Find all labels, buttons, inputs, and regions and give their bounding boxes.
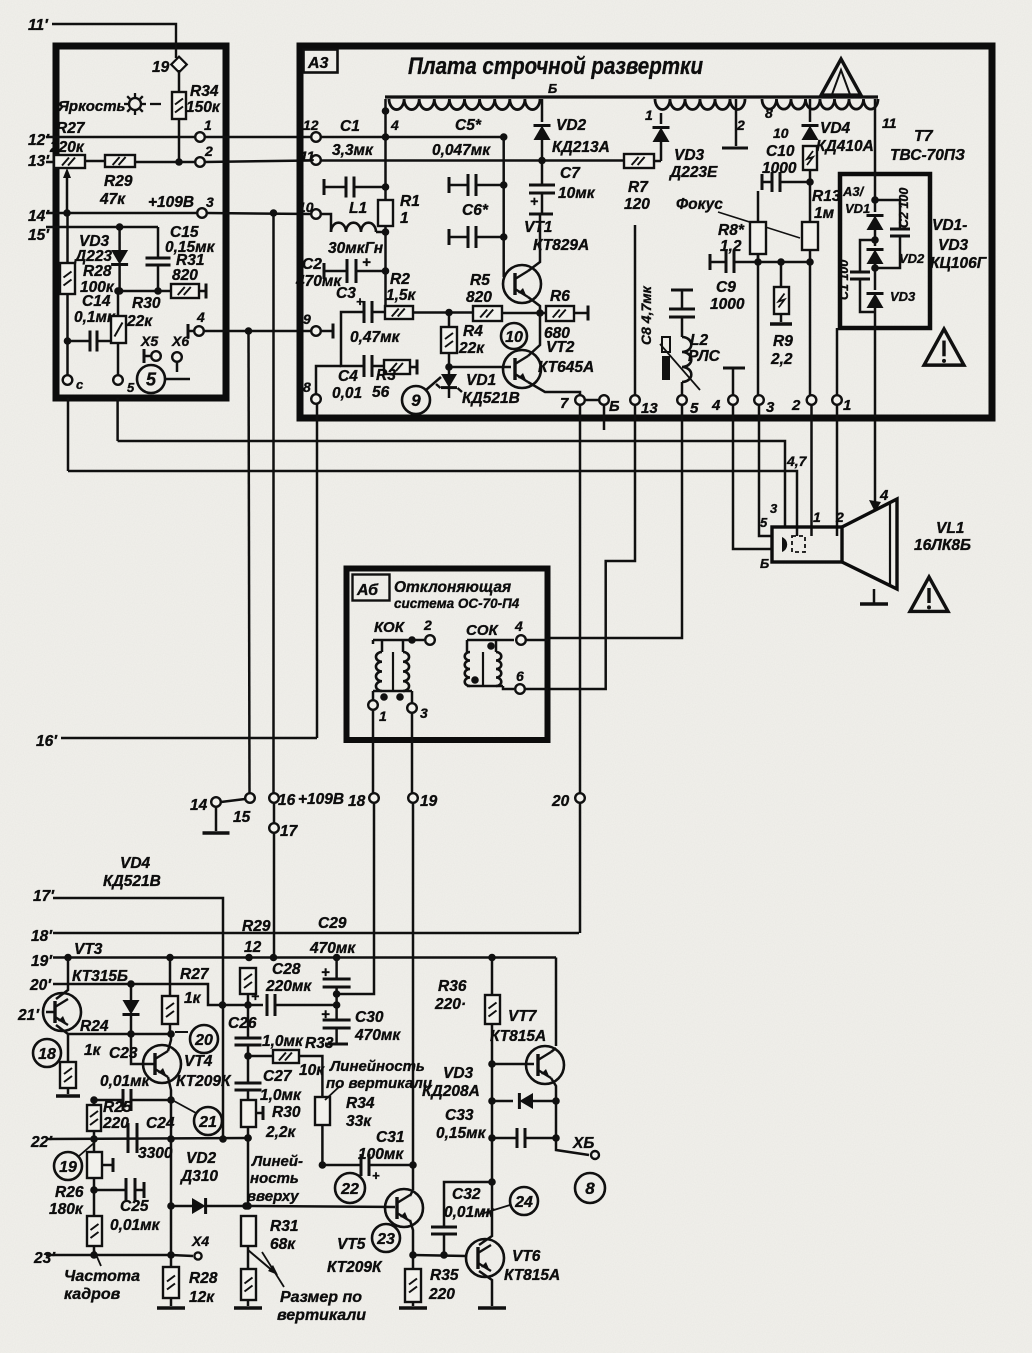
VT6 emitter to ground bbox=[479, 1271, 492, 1306]
svg-text:R36: R36 bbox=[438, 978, 467, 995]
wire to C15 bbox=[157, 227, 160, 258]
svg-text:0,01мк: 0,01мк bbox=[110, 1217, 161, 1234]
wire R29 to box pin 2 bbox=[135, 161, 195, 164]
A3 bottom pin 3 bbox=[754, 395, 764, 405]
svg-text:L2: L2 bbox=[690, 332, 708, 349]
svg-text:L1: L1 bbox=[349, 200, 367, 217]
resistor R3 56 bbox=[372, 365, 384, 368]
wire 7-Б bridge bbox=[585, 399, 599, 402]
KOK top bar and pin 2 bbox=[373, 639, 412, 642]
svg-text:14: 14 bbox=[190, 797, 208, 814]
wire X5 stub bbox=[144, 355, 150, 358]
svg-text:22к: 22к bbox=[126, 313, 153, 330]
svg-text:C6*: C6* bbox=[462, 202, 489, 219]
deflection yoke box Аб bbox=[347, 569, 548, 741]
VT4 emitter column down bbox=[170, 1100, 173, 1255]
svg-text:C23: C23 bbox=[109, 1045, 138, 1062]
svg-text:R3: R3 bbox=[376, 367, 396, 384]
svg-text:+: + bbox=[251, 988, 259, 1004]
svg-text:С1 100: С1 100 bbox=[837, 260, 851, 300]
VT4 base feed from VD4 node bbox=[131, 1034, 155, 1064]
svg-text:10мк: 10мк bbox=[558, 185, 596, 202]
svg-text:VD3: VD3 bbox=[674, 147, 705, 164]
capacitor C14 0.1uF bbox=[64, 337, 72, 345]
svg-text:C31: C31 bbox=[376, 1129, 404, 1146]
column A3 pin1 to CRT terminal 2 bbox=[836, 405, 839, 536]
C3 left wire loop down to C4 bbox=[341, 312, 364, 366]
svg-text:3: 3 bbox=[206, 194, 214, 210]
svg-text:22к: 22к bbox=[458, 340, 485, 357]
wire R27 to R29 bbox=[85, 160, 105, 163]
svg-text:C10: C10 bbox=[766, 143, 795, 160]
circled node 5 bbox=[137, 365, 165, 393]
wire R13 column to pin 2 bbox=[809, 262, 812, 395]
wire VD4 rect to R13 bbox=[809, 170, 812, 222]
svg-text:1: 1 bbox=[379, 708, 387, 724]
circled node 23 bbox=[372, 1224, 400, 1252]
capacitor C32 0.01uF loop bbox=[440, 1251, 448, 1259]
SOK pin6 exits right to A3 pin13 bbox=[525, 688, 548, 691]
svg-text:R33: R33 bbox=[305, 1035, 334, 1052]
svg-text:4: 4 bbox=[196, 309, 205, 325]
svg-text:VT5: VT5 bbox=[337, 1236, 366, 1253]
wire C15 to R31 row bbox=[157, 265, 160, 291]
node 19 column down to C31/VT5 bbox=[412, 803, 415, 1190]
VT3 emitter to R24 rail bbox=[56, 1025, 68, 1034]
transistor VT7 KT815A bbox=[526, 1046, 564, 1084]
svg-text:Аб: Аб bbox=[356, 582, 379, 599]
Аб designator box bbox=[353, 575, 390, 601]
box pin 3 circle bbox=[197, 208, 207, 218]
R34 wiper pointer bbox=[325, 1086, 340, 1100]
svg-text:ность: ность bbox=[250, 1170, 299, 1187]
svg-text:Б: Б bbox=[760, 556, 769, 571]
thermal resistor (R11) with bolt bbox=[809, 99, 812, 122]
svg-text:1: 1 bbox=[645, 107, 653, 123]
svg-text:КТ829А: КТ829А bbox=[533, 237, 589, 254]
svg-text:2: 2 bbox=[835, 509, 844, 525]
circled node 22 bbox=[335, 1173, 365, 1203]
svg-text:22: 22 bbox=[340, 1181, 359, 1198]
svg-text:0,1мк: 0,1мк bbox=[74, 309, 116, 326]
svg-text:12к: 12к bbox=[189, 1289, 215, 1306]
warning triangle near CRT bbox=[910, 577, 948, 611]
svg-text:А3: А3 bbox=[307, 55, 329, 72]
KOK pin3 column to node 19 bbox=[411, 713, 414, 793]
transistor VT5 KT209K bbox=[385, 1189, 423, 1227]
svg-text:Х4: Х4 bbox=[191, 1233, 209, 1249]
svg-text:R6: R6 bbox=[550, 288, 570, 305]
VT5 collector from node19 column bbox=[410, 1190, 413, 1196]
T7 winding 2 (pins 1-2) bbox=[655, 99, 745, 110]
junction dot R34/pin2 wire bbox=[175, 158, 183, 166]
svg-text:11: 11 bbox=[882, 115, 897, 131]
circled node 18 bbox=[33, 1039, 61, 1067]
column left-box to node 15 bbox=[249, 331, 250, 793]
wire pin19 to R34 bbox=[178, 70, 181, 92]
svg-text:R34: R34 bbox=[190, 83, 219, 100]
svg-text:150к: 150к bbox=[186, 99, 221, 116]
VT7 emitter bbox=[551, 1078, 556, 1101]
svg-text:СОК: СОК bbox=[466, 622, 500, 639]
svg-text:+: + bbox=[530, 193, 538, 209]
VT5 emitter to R35 rail bbox=[410, 1220, 413, 1255]
board A3 box — Плата строчной развертки bbox=[300, 46, 992, 418]
X6 stub down bbox=[176, 362, 179, 372]
box pin 2 circle bbox=[195, 157, 205, 167]
box pin c circle bbox=[63, 375, 73, 385]
node 18 column down to C29/C30 node bbox=[337, 803, 374, 994]
svg-text:VD3: VD3 bbox=[938, 237, 969, 254]
svg-text:1к: 1к bbox=[84, 1042, 102, 1059]
column A3 pin13 jog to COK pin 6 bbox=[548, 405, 635, 689]
wire A3 pin10 to L1 bbox=[311, 209, 321, 219]
svg-text:Д223Е: Д223Е bbox=[668, 164, 718, 181]
circled node 24 with pointer bbox=[510, 1187, 538, 1215]
rectifier block VD1-VD3 KTs106G box bbox=[840, 174, 930, 328]
svg-text:КД521В: КД521В bbox=[103, 873, 161, 890]
wire box pin3 to A3 pin10 (+109V) bbox=[207, 213, 311, 214]
svg-text:R30: R30 bbox=[132, 295, 161, 312]
potentiometer R27 220k bbox=[54, 155, 85, 168]
diode VD3 D223E (A3) bbox=[660, 142, 663, 161]
svg-text:Х5: Х5 bbox=[140, 333, 158, 349]
resistor R7 120 bbox=[654, 160, 661, 163]
resistor below R31 bbox=[247, 1246, 250, 1269]
svg-text:+109В: +109В bbox=[298, 791, 344, 808]
svg-text:C27: C27 bbox=[263, 1068, 293, 1085]
KOK bottom bar bbox=[373, 690, 412, 693]
module box A2 (video/brightness board, partial) bbox=[56, 46, 226, 398]
svg-text:18: 18 bbox=[348, 793, 366, 810]
svg-text:VD2: VD2 bbox=[556, 117, 587, 134]
svg-text:C32: C32 bbox=[452, 1186, 481, 1203]
svg-text:C28: C28 bbox=[272, 961, 301, 978]
svg-text:10: 10 bbox=[773, 125, 789, 141]
transistor VT2 KT645A bbox=[503, 350, 541, 388]
svg-text:100мк: 100мк bbox=[358, 1146, 404, 1163]
svg-text:23: 23 bbox=[376, 1231, 395, 1248]
circled node 19 with pointer bbox=[54, 1152, 82, 1180]
potentiometer R30 2.2k (left box) bbox=[117, 291, 120, 316]
svg-text:КД410А: КД410А bbox=[816, 138, 874, 155]
svg-text:2: 2 bbox=[423, 617, 432, 633]
svg-text:Линей-: Линей- bbox=[251, 1153, 303, 1170]
svg-text:C29: C29 bbox=[318, 915, 347, 932]
svg-text:КТ815А: КТ815А bbox=[490, 1028, 546, 1045]
svg-text:R2: R2 bbox=[390, 271, 410, 288]
pin4 left stub with tick bbox=[188, 330, 194, 333]
svg-text:VT4: VT4 bbox=[184, 1053, 213, 1070]
svg-text:VT3: VT3 bbox=[74, 941, 103, 958]
resistor R8* 1.2 bbox=[750, 222, 766, 254]
svg-text:680: 680 bbox=[544, 325, 570, 342]
svg-text:1000: 1000 bbox=[710, 296, 745, 313]
main column from T7 winding1 left (pin 4) bbox=[384, 99, 387, 200]
wire R34 to node at pin2 rail bbox=[178, 119, 181, 162]
VT7 collector bbox=[551, 1048, 556, 1052]
svg-text:R27: R27 bbox=[180, 966, 210, 983]
svg-text:C9: C9 bbox=[716, 279, 736, 296]
C7 bottom bar node bbox=[529, 213, 553, 216]
variable inductor L2 RLS bbox=[682, 337, 691, 382]
svg-text:17: 17 bbox=[280, 823, 299, 840]
A3 bottom pin 13 bbox=[630, 395, 640, 405]
wire KTs block to pin 1 bbox=[836, 328, 839, 395]
svg-text:R4: R4 bbox=[463, 323, 483, 340]
svg-text:220мк: 220мк bbox=[265, 978, 312, 995]
pin 19 diamond terminal bbox=[171, 57, 187, 73]
svg-text:19: 19 bbox=[59, 1159, 77, 1176]
svg-text:0,01мк: 0,01мк bbox=[100, 1073, 151, 1090]
svg-text:18′: 18′ bbox=[31, 928, 53, 945]
pot R31 68k vertical size bbox=[241, 1216, 256, 1246]
svg-text:ТВС-70ПЗ: ТВС-70ПЗ bbox=[890, 147, 965, 164]
svg-text:R31: R31 bbox=[270, 1218, 298, 1235]
svg-text:220к: 220к bbox=[49, 139, 85, 156]
svg-text:VD1-: VD1- bbox=[932, 217, 967, 234]
svg-text:120: 120 bbox=[624, 196, 650, 213]
node 17 circle bbox=[273, 803, 276, 823]
SOK bottom bar bbox=[467, 685, 503, 688]
resistor R9 2.2 with bolt bbox=[777, 258, 785, 266]
svg-text:2: 2 bbox=[791, 397, 801, 414]
svg-text:R24: R24 bbox=[80, 1018, 109, 1035]
pin 11' lead-in wire bbox=[52, 24, 176, 58]
svg-text:220: 220 bbox=[428, 1286, 455, 1303]
KOK windings bbox=[376, 652, 382, 691]
svg-text:С8 4,7мк: С8 4,7мк bbox=[638, 285, 654, 345]
svg-text:C3: C3 bbox=[336, 285, 356, 302]
svg-text:8: 8 bbox=[585, 1179, 595, 1198]
pointer dash to circled 20 bbox=[175, 1031, 188, 1033]
svg-text:2,2: 2,2 bbox=[770, 351, 793, 368]
junction dot VD2 column bbox=[538, 157, 546, 165]
A3 pin 9 circle with stub bbox=[311, 326, 321, 336]
svg-text:Яркость: Яркость bbox=[57, 98, 126, 115]
svg-text:47к: 47к bbox=[99, 191, 126, 208]
svg-text:VD3: VD3 bbox=[443, 1065, 474, 1082]
svg-text:8: 8 bbox=[765, 105, 773, 121]
diode VD2 KD213A column bbox=[541, 99, 544, 113]
svg-text:5: 5 bbox=[690, 400, 699, 417]
svg-text:КД208А: КД208А bbox=[422, 1083, 480, 1100]
svg-text:VL1: VL1 bbox=[936, 520, 964, 537]
svg-text:8: 8 bbox=[303, 379, 311, 395]
svg-text:R9: R9 bbox=[773, 333, 793, 350]
svg-text:КТ815А: КТ815А bbox=[504, 1267, 560, 1284]
svg-text:+109В: +109В bbox=[148, 194, 194, 211]
R27 wiper arrow from +109V rail bbox=[66, 174, 69, 213]
resistor R34 150k bbox=[172, 92, 186, 119]
svg-text:КД521В: КД521В bbox=[462, 390, 520, 407]
svg-text:33к: 33к bbox=[346, 1113, 372, 1130]
svg-text:4: 4 bbox=[879, 487, 889, 504]
svg-text:14′: 14′ bbox=[28, 208, 50, 225]
svg-text:КТ315Б: КТ315Б bbox=[72, 968, 128, 985]
svg-text:Т7: Т7 bbox=[914, 128, 934, 145]
+109V column from left box rail bbox=[270, 209, 278, 217]
svg-text:16′: 16′ bbox=[36, 733, 58, 750]
svg-text:Частота: Частота bbox=[64, 1268, 140, 1285]
T7 winding 3 (pins 8-11) bbox=[762, 99, 878, 109]
svg-text:23′: 23′ bbox=[33, 1250, 56, 1267]
wire circled5 to X6 column bbox=[165, 378, 190, 381]
column R1 down to R2 bbox=[384, 226, 387, 312]
svg-text:11′: 11′ bbox=[28, 17, 49, 34]
svg-text:R27: R27 bbox=[56, 120, 86, 137]
wire VD3 node to R31 bbox=[120, 290, 171, 293]
svg-text:470мк: 470мк bbox=[354, 1027, 401, 1044]
resistor R27 1k (bottom) bbox=[169, 958, 172, 997]
svg-text:VD2: VD2 bbox=[899, 251, 925, 266]
svg-text:18: 18 bbox=[38, 1046, 56, 1063]
svg-text:3,3мк: 3,3мк bbox=[332, 142, 374, 159]
svg-text:Б: Б bbox=[548, 81, 557, 96]
svg-text:VD3: VD3 bbox=[890, 289, 916, 304]
svg-text:C2: C2 bbox=[302, 256, 322, 273]
node 16 circle bbox=[269, 793, 279, 803]
svg-text:820: 820 bbox=[466, 289, 492, 306]
pointer to R31 bbox=[262, 1252, 284, 1287]
transistor VT6 KT815A bbox=[466, 1239, 504, 1277]
pin13 column inside A3 bbox=[634, 225, 637, 395]
svg-text:по вертикали: по вертикали bbox=[326, 1075, 432, 1092]
inductor L1 30uH bbox=[331, 223, 376, 232]
KTs diode VD1 bbox=[874, 174, 877, 212]
VT2 collector to emitter rail bbox=[528, 313, 540, 356]
resistor R6 680 bbox=[540, 312, 546, 315]
svg-text:9: 9 bbox=[411, 391, 421, 410]
svg-text:1: 1 bbox=[400, 210, 409, 227]
svg-text:C26: C26 bbox=[228, 1015, 257, 1032]
CRT VL1 16LK8B base block bbox=[772, 527, 842, 562]
wire VT2 base row bbox=[449, 366, 511, 369]
svg-text:А3/: А3/ bbox=[842, 184, 865, 199]
capacitor row to column: cap with tick bbox=[323, 179, 326, 195]
svg-text:+: + bbox=[372, 1168, 380, 1183]
svg-text:6: 6 bbox=[516, 668, 524, 684]
svg-text:Фокус: Фокус bbox=[676, 196, 723, 213]
svg-text:система ОС-70-П4: система ОС-70-П4 bbox=[394, 596, 520, 611]
svg-text:56: 56 bbox=[372, 384, 390, 401]
SOK pin 6 bbox=[503, 686, 514, 689]
diode VD4 KD410A bbox=[802, 126, 819, 140]
svg-text:вертикали: вертикали bbox=[277, 1307, 366, 1324]
svg-text:5: 5 bbox=[127, 380, 135, 395]
svg-text:VD1: VD1 bbox=[466, 372, 496, 389]
wire box pin1 to A3 pin12 bbox=[205, 136, 311, 139]
svg-text:кадров: кадров bbox=[64, 1286, 121, 1303]
svg-text:220: 220 bbox=[102, 1115, 129, 1132]
svg-text:Б: Б bbox=[609, 398, 620, 415]
svg-text:ХБ: ХБ bbox=[572, 1135, 594, 1152]
SOK windings bbox=[465, 652, 470, 686]
svg-text:C33: C33 bbox=[445, 1107, 474, 1124]
svg-text:КТ645А: КТ645А bbox=[538, 359, 594, 376]
svg-text:3: 3 bbox=[766, 399, 775, 416]
svg-text:С2 100: С2 100 bbox=[897, 188, 911, 228]
svg-text:R34: R34 bbox=[346, 1095, 375, 1112]
capacitor C24 3300 bbox=[127, 1123, 130, 1153]
resistor R25 220 bbox=[87, 1105, 101, 1131]
KTs cap C1 100 bbox=[871, 236, 879, 244]
svg-text:180к: 180к bbox=[49, 1201, 84, 1218]
wire 20 down to 18' rail bbox=[579, 803, 582, 933]
winding2 right stub with terminator bbox=[735, 99, 738, 146]
CRT ground bbox=[873, 589, 876, 603]
wire box pin2 to A3 pin11 bbox=[205, 161, 311, 163]
svg-text:Размер по: Размер по bbox=[280, 1289, 362, 1306]
svg-text:20: 20 bbox=[194, 1032, 213, 1049]
resistor R35 220 bbox=[412, 1255, 415, 1269]
svg-text:R29: R29 bbox=[104, 173, 133, 190]
svg-text:1: 1 bbox=[843, 397, 851, 414]
svg-text:R26: R26 bbox=[55, 1184, 84, 1201]
KOK pin1 column to node 18 bbox=[372, 710, 375, 793]
svg-text:0,47мк: 0,47мк bbox=[350, 329, 401, 346]
column A3 pin7 to node 20 bbox=[579, 405, 582, 793]
resistor R28 12k (bottom) bbox=[170, 1255, 173, 1267]
svg-text:R5: R5 bbox=[470, 272, 490, 289]
svg-text:C30: C30 bbox=[355, 1009, 384, 1026]
diode VD3 D223 (left box) bbox=[118, 227, 121, 250]
svg-text:1,0мк: 1,0мк bbox=[260, 1087, 302, 1104]
svg-text:C5*: C5* bbox=[455, 117, 482, 134]
svg-text:0,15мк: 0,15мк bbox=[436, 1125, 487, 1142]
svg-text:КТ209К: КТ209К bbox=[327, 1259, 383, 1276]
svg-text:12: 12 bbox=[244, 939, 262, 956]
circled node 20 bbox=[190, 1025, 218, 1053]
svg-text:R25: R25 bbox=[103, 1099, 132, 1116]
svg-text:КЦ106Г: КЦ106Г bbox=[930, 255, 988, 272]
svg-text:3: 3 bbox=[420, 705, 428, 721]
svg-text:R7: R7 bbox=[628, 179, 649, 196]
VT3 collector to 19' rail bbox=[56, 958, 68, 1000]
svg-text:21′: 21′ bbox=[17, 1007, 40, 1024]
capacitor C15 0.15uF bbox=[146, 257, 171, 260]
svg-text:3300: 3300 bbox=[138, 1145, 173, 1162]
capacitor C7 10uF bbox=[541, 161, 544, 186]
node 15 circle bbox=[245, 793, 255, 803]
SOK exits right to A3 pin5 bbox=[526, 639, 548, 642]
svg-text:+: + bbox=[362, 254, 371, 271]
svg-text:15′: 15′ bbox=[28, 227, 50, 244]
A3 bottom pin 4 bbox=[728, 395, 738, 405]
T7 winding 1 (pins 4..Б) bbox=[389, 99, 540, 110]
svg-text:R8*: R8* bbox=[718, 222, 745, 239]
emitter resistor of VT3 bbox=[67, 1034, 70, 1062]
svg-text:13: 13 bbox=[641, 400, 658, 417]
svg-text:17′: 17′ bbox=[33, 888, 55, 905]
KOK pins 1 and 3 bbox=[380, 693, 388, 701]
svg-text:КТ209К: КТ209К bbox=[176, 1073, 232, 1090]
transformer T7 core bar bbox=[385, 95, 878, 98]
capacitor C9 1000 bbox=[709, 254, 712, 270]
VT6 collector column bbox=[479, 1182, 492, 1245]
svg-text:VD1: VD1 bbox=[845, 201, 870, 216]
column A3 pin3 to CRT grid lead bbox=[759, 405, 772, 536]
svg-text:1м: 1м bbox=[814, 205, 835, 222]
svg-text:19: 19 bbox=[152, 59, 170, 76]
T7 anode column to CRT pin 4 bbox=[874, 421, 877, 503]
transistor VT4 KT209K bbox=[143, 1045, 181, 1083]
VD3/C33 column down to VT6 collector bbox=[491, 1138, 494, 1182]
svg-text:30мкГн: 30мкГн bbox=[328, 240, 384, 257]
A3 pin Б stub below border bbox=[603, 405, 606, 430]
svg-text:R1: R1 bbox=[400, 193, 420, 210]
svg-text:1,2: 1,2 bbox=[720, 238, 742, 255]
